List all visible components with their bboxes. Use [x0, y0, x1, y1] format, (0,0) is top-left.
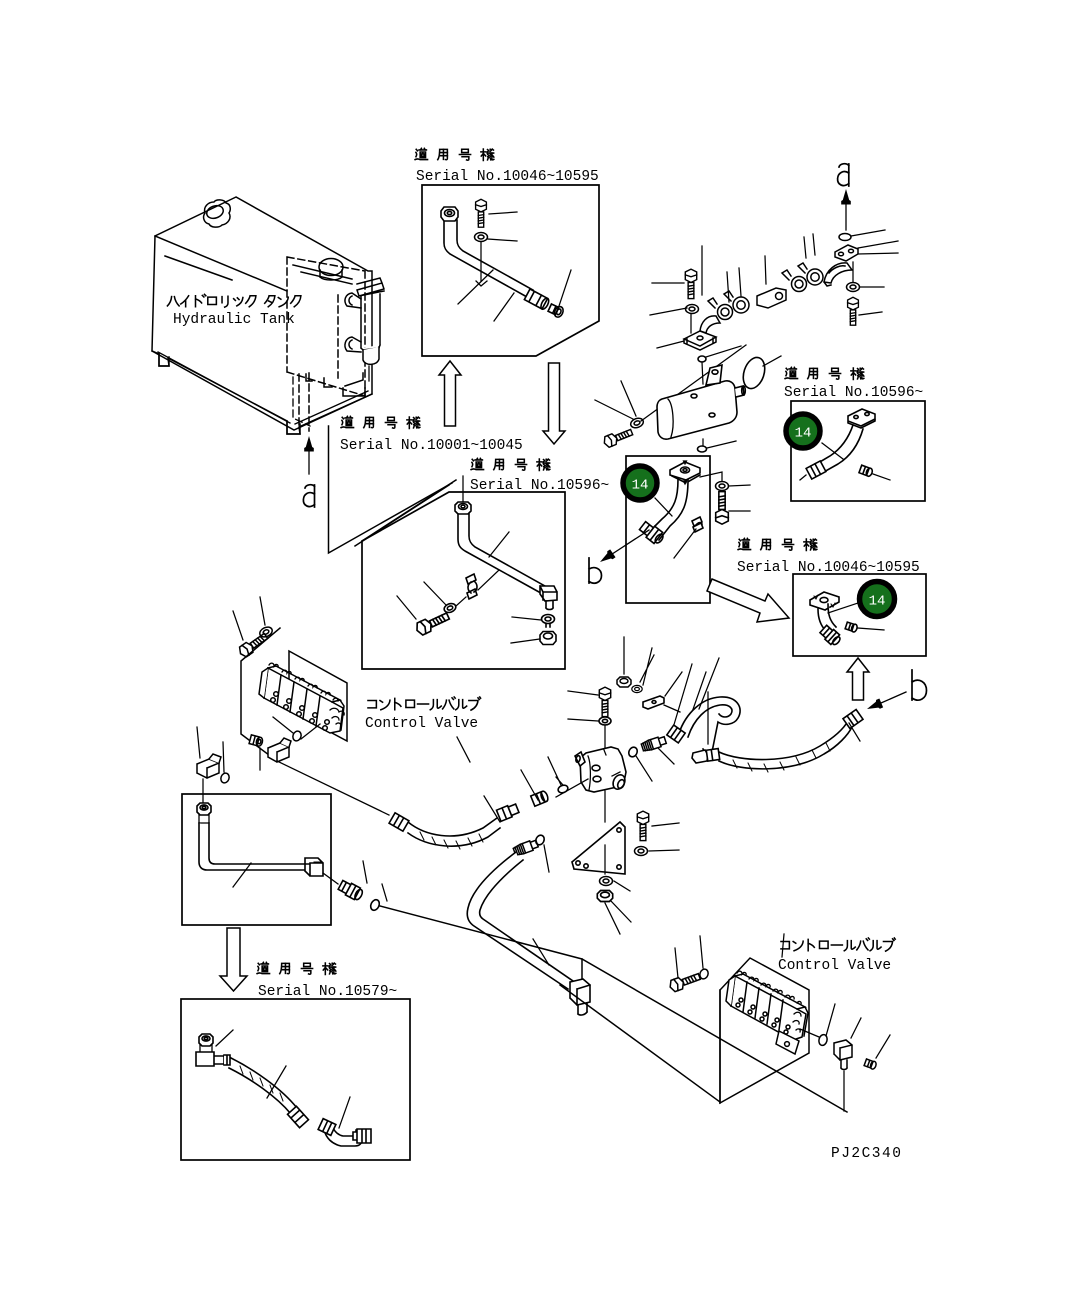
valve1 left end cap — [259, 668, 268, 698]
label hydraulic tank katakana — [167, 294, 301, 307]
leader gasket — [763, 356, 781, 366]
svg-text:14: 14 — [795, 426, 812, 442]
leader flange-bolt vertical — [852, 262, 854, 282]
flange plate a — [835, 245, 858, 261]
valve body v1 — [264, 668, 343, 733]
fittings below valve1 — [197, 597, 389, 815]
washer b1 — [475, 233, 488, 242]
leader elbow v1 long — [277, 761, 389, 815]
inset box tube upper-left — [182, 794, 331, 925]
leaders right hose — [699, 658, 860, 744]
tee valve block — [580, 747, 626, 792]
svg-text:PJ2C340: PJ2C340 — [831, 1146, 902, 1162]
inset box serial 10596 center leader flag — [355, 480, 456, 546]
flange block b3 — [670, 462, 700, 480]
hidden tank dashed box — [287, 257, 365, 431]
label 適用号機 10046 right — [738, 538, 817, 550]
svg-text:Hydraulic Tank: Hydraulic Tank — [173, 312, 295, 328]
label 適用号機 box1 — [415, 148, 494, 160]
nut below bracket — [597, 891, 612, 902]
tube b6 — [199, 823, 305, 870]
svg-text:14: 14 — [632, 478, 649, 494]
callout 14 circle right-mid — [860, 582, 895, 617]
leader bolt v1 — [233, 597, 265, 640]
leader link a — [765, 256, 766, 284]
tank bottom right steps — [306, 374, 365, 396]
inset box serial 10046-10595 top — [422, 185, 599, 356]
arrow a tank — [304, 436, 314, 452]
bolt v1 topleft — [237, 631, 269, 659]
leaders bracket right — [649, 823, 679, 851]
svg-text:Serial No.10579~: Serial No.10579~ — [258, 984, 397, 1000]
leaders bolt washer b2 — [397, 582, 466, 619]
nut on elbow b6 — [314, 861, 322, 863]
flange plate b5 — [810, 592, 839, 610]
leader plug b4 — [873, 474, 890, 480]
label 適用号機 10596 right — [785, 367, 864, 379]
washer a — [847, 283, 860, 292]
fitting top b2 — [455, 502, 471, 514]
leaders left cluster — [650, 283, 687, 348]
pipe elbow b1 — [444, 220, 533, 297]
leaders cyl left — [595, 381, 636, 419]
leader plug v1 — [259, 748, 261, 770]
arrow up to box1 — [439, 361, 461, 426]
washer center small — [632, 685, 642, 692]
leaders elbow2 — [197, 727, 203, 802]
leader circle1 to pipe — [655, 498, 672, 516]
label control valve 1 katakana — [368, 697, 481, 710]
leader from label to fitting — [462, 476, 464, 502]
washer left — [686, 305, 699, 314]
elbow pipe b3 — [650, 480, 688, 540]
arrow a top-right — [841, 189, 851, 205]
svg-text:Control Valve: Control Valve — [778, 958, 891, 974]
label control valve 2 katakana — [781, 938, 895, 951]
clamp pair right — [782, 263, 823, 292]
elbow hose assembly right — [679, 697, 740, 752]
L-fitting b7 — [199, 1034, 213, 1046]
inline connector — [337, 879, 364, 902]
washer left of cyl — [629, 417, 644, 430]
valve2 body — [731, 976, 806, 1040]
mount plate v2 — [720, 958, 809, 1103]
plug b5 — [845, 622, 858, 633]
letter a top-right — [838, 164, 849, 186]
leader o-ring a — [851, 230, 885, 236]
o-ring pipe2 — [534, 834, 545, 846]
washer ring above tee — [599, 717, 611, 725]
tank weld seam line — [165, 256, 232, 280]
tank foot right — [287, 421, 300, 434]
flange block b4 — [848, 409, 875, 428]
o-ring left of tee — [557, 784, 569, 794]
callout 14 circle center — [623, 466, 657, 500]
leader o-ring v2 — [800, 1004, 835, 1037]
arrow up to box5 — [847, 658, 869, 700]
small quad behind fittings — [241, 628, 280, 761]
leader bolt a — [859, 312, 882, 315]
o-ring right v2 — [818, 1034, 829, 1047]
leader washer b1 to pipe — [476, 242, 487, 286]
fitting chain left — [531, 790, 549, 806]
leader valve2 top — [782, 934, 784, 957]
nut center — [617, 677, 631, 687]
leader thru o-ring — [273, 717, 320, 739]
o-ring left of nipple — [627, 746, 638, 758]
leader o-ring pipe2 — [544, 845, 549, 872]
bolt a right — [848, 297, 859, 325]
elbow pipe2 — [570, 979, 590, 1005]
letter b center — [589, 558, 602, 583]
stub below elbow b2 — [546, 601, 553, 610]
leader washer b3 — [700, 472, 750, 486]
plug b1 — [547, 303, 564, 319]
filter cylinder — [361, 294, 380, 350]
leader inside b3 — [674, 529, 696, 558]
svg-text:Serial No.10046~10595: Serial No.10046~10595 — [416, 169, 599, 185]
gasket ellipse — [740, 355, 769, 392]
washer b2 — [542, 615, 555, 628]
stem washer to tee — [604, 725, 606, 753]
inset box b-pipe mid — [626, 456, 710, 603]
leader long over cylinder — [641, 345, 746, 421]
pipe b2 — [458, 514, 545, 592]
tank bottom front edge — [152, 351, 372, 430]
strap lines — [293, 265, 352, 284]
leader ball top — [706, 346, 741, 357]
fitting hose right — [706, 749, 719, 762]
washer below bolt — [635, 847, 648, 856]
cylinder stub right — [735, 386, 744, 397]
bolt right of b3 — [716, 492, 729, 525]
leader flag serial 10001-10045 — [329, 426, 453, 553]
svg-text:14: 14 — [869, 594, 886, 610]
leader inside b6 — [233, 863, 251, 887]
ball stick bottom — [702, 439, 704, 446]
bolt center — [599, 687, 610, 716]
leaders pipe b2 — [478, 532, 509, 590]
elbow pipe b4 — [813, 425, 863, 473]
vertical frame line — [719, 990, 721, 1103]
bolt right of bracket — [637, 811, 648, 840]
svg-text:Control Valve: Control Valve — [365, 716, 478, 732]
bolt below valve2 — [668, 971, 701, 993]
hose left end fitting — [389, 813, 409, 831]
bolt cluster left: hex bolt — [685, 269, 696, 298]
leader washer a — [860, 286, 884, 288]
clamp piece b3 — [692, 517, 703, 532]
tank top-front edge — [155, 236, 287, 291]
fitting stack b5 — [819, 624, 843, 647]
elbow tube b7 — [324, 1128, 362, 1146]
callout 14 circle right-top — [786, 414, 820, 448]
washer below bracket — [600, 877, 613, 886]
leaders b1 — [458, 212, 571, 321]
pipe2 run — [467, 852, 573, 989]
corner leader to elbow — [581, 959, 583, 979]
washer right of b3 — [716, 482, 729, 491]
pipe end nut b1 — [524, 289, 550, 310]
o-ring near bolt — [699, 968, 710, 980]
elbow bottom right — [692, 750, 708, 763]
nut on pipe b4 — [806, 461, 826, 479]
svg-text:Serial No.10001~10045: Serial No.10001~10045 — [340, 438, 523, 454]
hose left — [408, 818, 500, 846]
elbow pipe b5 — [818, 604, 836, 631]
leaders nipple — [636, 748, 674, 781]
o-ring below plug v1 — [220, 772, 231, 784]
leaders clamps right — [804, 234, 815, 258]
link cylinder a — [757, 288, 786, 308]
elbow block b2 — [540, 586, 557, 601]
plug right v2 — [864, 1059, 877, 1070]
svg-text:Serial No.10596~: Serial No.10596~ — [784, 385, 923, 401]
flange left — [684, 331, 716, 350]
plug v1 — [249, 735, 263, 747]
tank outline — [152, 197, 372, 434]
nut on elbow left — [667, 725, 685, 743]
leader pipe2 — [533, 939, 549, 965]
leaders clamp left — [727, 268, 741, 302]
elbow right v2 — [834, 1040, 852, 1060]
leader ball bottom — [707, 441, 736, 448]
leader bolt b3 — [729, 510, 750, 512]
elbow tube a — [824, 263, 852, 286]
leaders to washer and nut b2 — [511, 617, 541, 643]
fitting nut b1 top — [441, 207, 458, 221]
leaders left of tee — [556, 777, 588, 797]
arrow down from box6 — [220, 928, 247, 991]
elbow fitting v1 — [268, 743, 289, 762]
arrow b center — [597, 549, 615, 566]
label 適用号機 10579 — [257, 962, 336, 974]
pipe end b4 — [800, 475, 806, 480]
long diagonal B — [560, 985, 720, 1102]
pipe2 fitting — [513, 839, 539, 857]
link to connector — [323, 873, 338, 884]
hose to b — [719, 721, 852, 769]
bracket below tee — [604, 791, 606, 822]
leader circle2 pipe — [822, 443, 843, 459]
label 適用号機 10001 — [341, 416, 420, 428]
filter clamp hooks — [345, 293, 361, 308]
strip plate center — [643, 696, 664, 709]
inset box serial 10046-10595 right — [793, 574, 926, 656]
svg-text:Serial No.10596~: Serial No.10596~ — [470, 478, 609, 494]
bolt b2 — [414, 610, 450, 636]
long diagonal A — [380, 906, 847, 1112]
washer b2 left — [443, 602, 457, 614]
label 適用号機 10596 center — [471, 458, 550, 470]
leaders below bracket — [605, 881, 631, 934]
filler cap — [204, 200, 231, 227]
letter b right — [912, 670, 927, 700]
leader flange to circle3 — [828, 603, 858, 613]
nut b2 — [540, 632, 556, 645]
hose b end fitting — [843, 709, 863, 728]
o-ring a — [839, 234, 851, 241]
elbow fitting v1 lower left — [197, 759, 219, 778]
inset box serial 10596 center — [362, 492, 565, 669]
leaders connector — [363, 861, 387, 901]
clamp pair left — [708, 291, 749, 320]
bolt b1 — [476, 199, 487, 227]
hose b7 end nut — [288, 1106, 309, 1127]
leader flange-top right — [701, 246, 703, 295]
valve2 left cap — [726, 976, 735, 1006]
bolt below left — [602, 427, 634, 449]
fitting top b6 — [197, 803, 211, 815]
ball stick top — [698, 356, 706, 362]
clamp b2 — [466, 574, 477, 599]
filter mount collar — [357, 278, 384, 296]
leaders top center — [568, 637, 706, 728]
elbow right b6 — [305, 858, 323, 876]
plug b4 — [859, 465, 873, 477]
arrow down from box1 — [543, 363, 565, 444]
leaders central hose — [457, 737, 561, 822]
bracket on top — [706, 365, 722, 385]
leaders flange a — [858, 241, 898, 254]
tank foot left — [159, 354, 169, 366]
svg-text:Serial No.10046~10595: Serial No.10046~10595 — [737, 560, 920, 576]
leader plug b5 — [858, 628, 884, 630]
o-ring after connector — [369, 898, 381, 911]
inset box serial 10579 bottom — [181, 999, 410, 1160]
letter a tank — [303, 485, 314, 507]
fitting stack b3 — [638, 520, 666, 546]
mount plate v1 — [289, 651, 347, 741]
cylinder body — [657, 381, 737, 439]
leaders b7 — [216, 1030, 350, 1128]
arrow slanted to box5 — [707, 579, 789, 622]
tank bottom inner lines — [158, 352, 368, 424]
cap 2 on dashed tank — [319, 259, 343, 276]
drop line v2 — [843, 1071, 845, 1111]
washer v1 — [258, 625, 274, 639]
elbow tube left — [700, 316, 720, 335]
inset box serial 10596 right — [791, 401, 925, 501]
leaders bolt v2 — [675, 936, 703, 978]
o-ring v1 — [292, 730, 303, 742]
arrow b right — [865, 699, 883, 714]
leaders elbow v2 — [851, 1018, 890, 1058]
nipple fitting right of tee — [641, 735, 667, 752]
hose b7 — [229, 1058, 297, 1114]
